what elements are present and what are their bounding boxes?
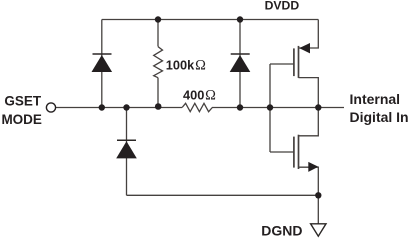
svg-text:400Ω: 400Ω	[183, 88, 216, 104]
junction: D2 branch / top rail	[237, 16, 243, 22]
diode D3 cathode bar	[117, 139, 136, 141]
diode D1 anode triangle	[92, 55, 113, 72]
wire: stem from bottom rail down to ground symbol	[317, 195, 319, 223]
wire: DGND bottom rail	[127, 194, 319, 196]
junction: D3 branch / main wire	[123, 104, 129, 110]
wire: branch from top rail down through diode D2 to main wire	[239, 20, 241, 108]
transistor Q2 NMOS gate bar	[293, 137, 295, 168]
wire: NMOS source lead down to bottom rail	[299, 167, 319, 195]
junction: 100k branch / main wire	[155, 103, 162, 110]
svg-text:GSET: GSET	[4, 94, 42, 109]
wire: PMOS drain lead down to output node	[299, 78, 319, 108]
wire: DVDD top rail	[102, 19, 318, 21]
svg-text:100kΩ: 100kΩ	[166, 57, 206, 73]
wire: NMOS drain lead up to output node	[299, 108, 319, 136]
wire: branch from main wire down through diode D3 to bottom rail	[126, 108, 128, 196]
wire: main input wire from terminal to 400 resistor	[56, 107, 182, 109]
wire: 100k resistor branch (bottom lead)	[157, 78, 159, 108]
wire: main wire from 400 resistor to output	[212, 107, 344, 109]
svg-text:MODE: MODE	[1, 112, 42, 127]
junction: ground stem / bottom rail	[315, 192, 321, 198]
transistor Q2 NMOS source arrow	[308, 162, 318, 172]
diode D2 cathode bar	[231, 53, 250, 55]
transistor Q2 NMOS channel bar	[298, 135, 300, 169]
wire: PMOS gate lead	[270, 63, 294, 65]
diode D1 cathode bar	[93, 53, 112, 55]
junction: drain node / main wire	[315, 104, 321, 110]
transistor Q1 PMOS channel bar	[298, 46, 300, 78]
resistor R2 400ohm	[182, 103, 212, 111]
svg-text:Digital In: Digital In	[350, 109, 408, 125]
wire: gate stem connecting both MOSFET gates to main wire	[269, 64, 271, 152]
wire: PMOS source lead to DVDD rail	[299, 20, 319, 49]
junction: D2 branch / main wire	[237, 104, 243, 110]
diode D2 anode triangle	[230, 55, 251, 72]
wire: left branch from top rail down through diode D1 to main wire	[101, 20, 103, 108]
junction: gate stem / main wire	[267, 104, 273, 110]
input terminal circle GSET MODE	[46, 103, 55, 112]
transistor Q1 PMOS source arrow	[299, 43, 310, 53]
wire: 100k resistor branch (top lead)	[157, 20, 159, 47]
svg-text:DVDD: DVDD	[265, 0, 300, 13]
svg-text:DGND: DGND	[261, 222, 302, 238]
transistor Q1 PMOS gate bar	[293, 48, 295, 76]
diode D3 anode triangle	[116, 141, 137, 158]
svg-text:Internal: Internal	[350, 91, 401, 107]
wire: NMOS gate lead	[270, 151, 294, 153]
junction: 100k branch / top rail	[155, 16, 161, 22]
ground symbol DGND	[311, 224, 326, 236]
junction: D1 branch / main wire	[99, 104, 105, 110]
resistor R1 100kohm	[154, 47, 163, 78]
